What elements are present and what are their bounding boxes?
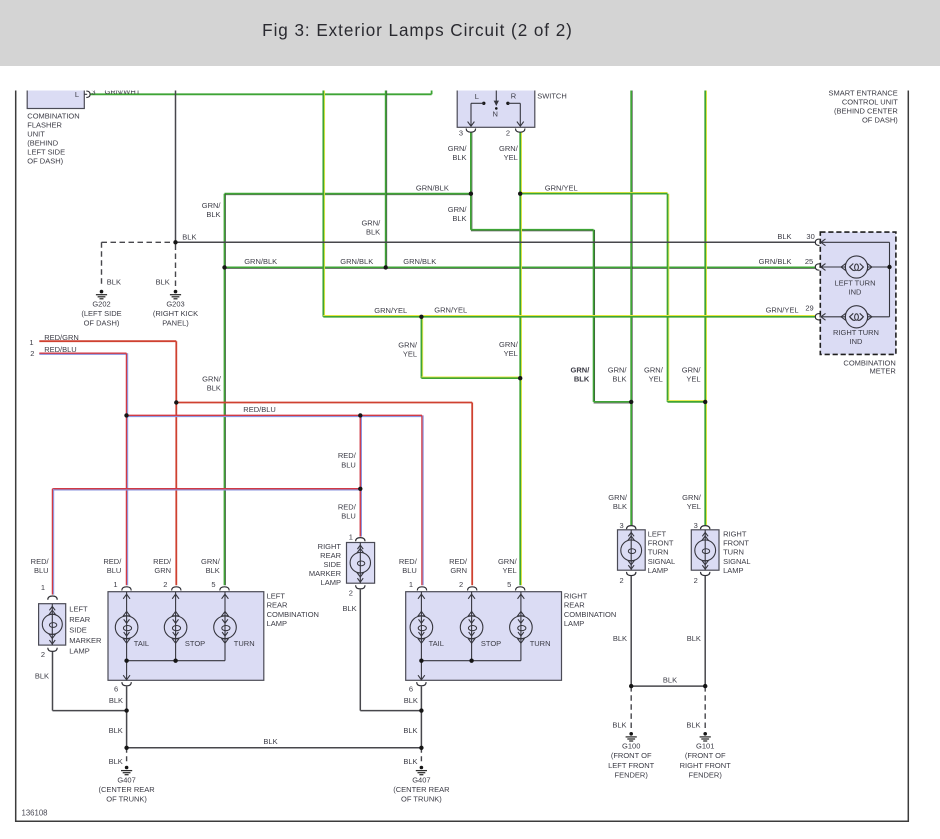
meter pin 29 connector: [766, 303, 820, 320]
svg-text:LEFT SIDE: LEFT SIDE: [27, 148, 65, 157]
wire BLK horizontal y747 linking both rear lamp grounds: [127, 747, 422, 749]
svg-text:LAMP: LAMP: [267, 619, 287, 628]
svg-text:(FRONT OF: (FRONT OF: [611, 751, 652, 760]
svg-text:(CENTER REAR: (CENTER REAR: [98, 785, 155, 794]
svg-text:SMART ENTRANCE: SMART ENTRANCE: [828, 88, 897, 97]
wire GRN/WHT from flasher L output to top edge: [90, 89, 431, 94]
svg-text:GRN/: GRN/: [499, 340, 519, 349]
smart entrance control unit caption: [828, 88, 898, 124]
junction at 360.3,415.4: [358, 413, 362, 417]
labels GRN/YEL on y317: [374, 306, 467, 316]
wire BLK long horizontal y242 to combination meter pin 30: [176, 241, 816, 243]
meter internal wiring: [819, 239, 889, 320]
svg-text:BLK: BLK: [263, 737, 277, 746]
wire BLK dashed to ground G101: [704, 686, 706, 730]
pin 1 RED/GRN entry: [29, 333, 78, 347]
svg-text:2: 2: [459, 580, 463, 589]
svg-text:BLK: BLK: [452, 153, 466, 162]
svg-text:G101: G101: [696, 742, 714, 751]
svg-text:REAR: REAR: [564, 601, 585, 610]
ground G100: [608, 732, 655, 779]
svg-text:REAR: REAR: [267, 601, 288, 610]
svg-text:BLK: BLK: [109, 696, 123, 705]
label GRN/YEL x705: [682, 365, 702, 383]
svg-text:BLK: BLK: [156, 277, 170, 286]
svg-text:YEL: YEL: [503, 566, 517, 575]
svg-text:BLK: BLK: [206, 210, 220, 219]
svg-text:RED/: RED/: [31, 557, 50, 566]
ground G101: [680, 732, 732, 779]
wire RED/BLU horizontal y489 to left rear side marker lamp pin 1: [53, 489, 361, 595]
svg-text:YEL: YEL: [403, 350, 417, 359]
turn signal switch box (top clipped): [457, 80, 535, 127]
wire RED/BLU horizontal y415 to right rear combination lamp pin 1: [127, 415, 424, 585]
svg-text:BLK: BLK: [182, 232, 196, 241]
left turn indicator bulb: [835, 256, 876, 297]
svg-text:GRN/: GRN/: [644, 365, 664, 374]
wire RED/BLU vertical to left rear combination lamp pin 1: [127, 353, 128, 585]
svg-text:TAIL: TAIL: [429, 639, 444, 648]
wire GRN/BLK long horizontal y267 to combination meter pin 25: [225, 267, 816, 268]
svg-text:6: 6: [409, 684, 413, 693]
svg-text:RED/BLU: RED/BLU: [44, 345, 77, 354]
pin 1 connector: [122, 587, 131, 591]
pin 2 connector: [172, 587, 181, 591]
svg-text:STOP: STOP: [185, 639, 205, 648]
svg-text:GRN/: GRN/: [682, 493, 702, 502]
wire RED/BLU stub pin 2 entering at left: [39, 353, 126, 354]
wire GRN/BLK vertical x385 from top edge to junction on y267: [386, 89, 387, 267]
svg-text:TURN: TURN: [648, 548, 669, 557]
svg-text:2: 2: [506, 129, 510, 138]
svg-text:FRONT: FRONT: [648, 539, 674, 548]
svg-text:1: 1: [41, 583, 45, 592]
wire BLK dashed to ground G203: [175, 245, 177, 287]
wire BLK dashed to ground G407 right: [420, 748, 422, 764]
svg-text:1: 1: [113, 580, 117, 589]
svg-text:BLK: BLK: [686, 721, 700, 730]
svg-text:IND: IND: [850, 337, 864, 346]
svg-text:GRN/BLK: GRN/BLK: [403, 257, 436, 266]
svg-text:2: 2: [41, 650, 45, 659]
svg-text:G202: G202: [92, 299, 110, 308]
svg-text:YEL: YEL: [504, 349, 518, 358]
label GRN/BLK switch pin3 wire: [448, 144, 468, 162]
wire BLK from left rear side marker lamp pin 2: [53, 652, 127, 711]
svg-text:BLK: BLK: [452, 214, 466, 223]
svg-text:BLK: BLK: [207, 383, 221, 392]
svg-text:OF TRUNK): OF TRUNK): [401, 795, 442, 804]
svg-text:RIGHT FRONT: RIGHT FRONT: [680, 761, 732, 770]
svg-text:SWITCH: SWITCH: [537, 91, 567, 100]
svg-text:L: L: [75, 90, 79, 99]
svg-text:TAIL: TAIL: [134, 639, 149, 648]
svg-text:LAMP: LAMP: [564, 619, 584, 628]
svg-text:5: 5: [507, 580, 511, 589]
ground G202: [81, 290, 121, 328]
junction at 705.2,401.9: [703, 400, 707, 404]
svg-text:LAMP: LAMP: [69, 646, 89, 655]
wire BLK vertical x175 from top edge to junction y242: [175, 89, 177, 242]
svg-text:SIDE: SIDE: [323, 560, 341, 569]
svg-text:(BEHIND: (BEHIND: [27, 139, 58, 148]
svg-text:REAR: REAR: [320, 551, 341, 560]
svg-text:(CENTER REAR: (CENTER REAR: [393, 785, 450, 794]
svg-text:SIDE: SIDE: [69, 626, 87, 635]
junction inside meter: [887, 265, 891, 269]
svg-text:BLU: BLU: [402, 566, 417, 575]
flasher output connector: [86, 91, 90, 97]
svg-text:136108: 136108: [22, 809, 48, 818]
svg-text:GRN/YEL: GRN/YEL: [545, 183, 578, 192]
svg-text:CONTROL UNIT: CONTROL UNIT: [842, 98, 898, 107]
svg-text:6: 6: [114, 684, 118, 693]
svg-text:G407: G407: [412, 775, 430, 784]
label GRN/YEL x421: [398, 341, 418, 359]
svg-text:RED/BLU: RED/BLU: [243, 405, 276, 414]
left rear combination lamp: [108, 580, 319, 693]
junction at 705.2,686.1: [703, 684, 707, 688]
wire GRN/BLK from switch pin 3 down to junction and turn at y230: [471, 132, 472, 230]
svg-text:FRONT: FRONT: [723, 539, 749, 548]
svg-text:2: 2: [163, 580, 167, 589]
wire BLK dashed to ground G202: [102, 242, 176, 286]
combination flasher unit box (top clipped): [27, 80, 87, 109]
svg-text:LAMP: LAMP: [723, 566, 743, 575]
svg-text:YEL: YEL: [686, 374, 700, 383]
svg-text:L: L: [475, 92, 479, 101]
svg-text:25: 25: [805, 257, 813, 266]
left combo lamp pin wire labels: [103, 557, 220, 575]
pin 5 connector: [220, 587, 229, 591]
svg-text:RIGHT TURN: RIGHT TURN: [833, 328, 879, 337]
wire RED/GRN branch y402 to right rear combination lamp pin 2: [176, 403, 472, 586]
svg-text:BLU: BLU: [34, 566, 49, 575]
svg-text:GRN/YEL: GRN/YEL: [766, 306, 799, 315]
junction at 360.3,488.8: [358, 487, 362, 491]
svg-text:BLK: BLK: [109, 757, 123, 766]
svg-text:LAMP: LAMP: [648, 566, 668, 575]
wire BLK from right rear combination lamp pin 6 to junction y747: [420, 686, 422, 747]
svg-text:OF DASH): OF DASH): [862, 116, 898, 125]
svg-text:LEFT: LEFT: [267, 591, 286, 600]
svg-text:MARKER: MARKER: [69, 636, 102, 645]
svg-text:COMBINATION: COMBINATION: [27, 112, 79, 121]
svg-text:Fig 3: Exterior Lamps Circuit: Fig 3: Exterior Lamps Circuit (2 of 2): [262, 21, 573, 40]
ground G407 left: [98, 766, 155, 804]
wire BLK dashed to ground G407 left: [126, 748, 128, 764]
svg-text:COMBINATION: COMBINATION: [564, 610, 616, 619]
junction at 520.2,378.2: [518, 376, 522, 380]
svg-text:GRN/YEL: GRN/YEL: [374, 306, 407, 315]
svg-text:R: R: [511, 92, 517, 101]
svg-text:GRN: GRN: [450, 566, 467, 575]
svg-text:MARKER: MARKER: [309, 569, 342, 578]
svg-text:COMBINATION: COMBINATION: [267, 610, 319, 619]
svg-text:GRN: GRN: [154, 566, 171, 575]
svg-text:2: 2: [349, 589, 353, 598]
svg-text:GRN/: GRN/: [201, 557, 221, 566]
svg-text:2: 2: [620, 576, 624, 585]
ground G407 right: [393, 766, 450, 804]
wire RED/BLU branch x360 down to right rear side marker lamp pin 1: [360, 415, 361, 536]
label GRN/BLK x593 (bold): [571, 365, 591, 383]
pin 6 connector: [122, 682, 131, 686]
svg-text:YEL: YEL: [687, 502, 701, 511]
svg-text:BLK: BLK: [612, 374, 626, 383]
svg-text:GRN/BLK: GRN/BLK: [244, 257, 277, 266]
junction at 126.5,415.4: [124, 413, 128, 417]
svg-text:1: 1: [29, 338, 33, 347]
svg-text:G203: G203: [166, 299, 184, 308]
svg-text:RIGHT: RIGHT: [723, 529, 747, 538]
junction at 176.3,402.5: [174, 400, 178, 404]
svg-text:FENDER): FENDER): [615, 770, 649, 779]
wire GRN/YEL horizontal y193 from switch pin2 junction to x667: [520, 192, 705, 401]
wire GRN/BLK vertical x224 down to left rear combination lamp pin 5: [225, 194, 226, 586]
label GRN/BLK x470 lower: [448, 205, 468, 223]
junction at 385.7,267.4: [384, 265, 388, 269]
label GRN/YEL right front lamp wire: [682, 493, 702, 511]
svg-text:BLK: BLK: [206, 566, 220, 575]
svg-text:GRN/: GRN/: [608, 365, 628, 374]
svg-text:RED/: RED/: [103, 557, 122, 566]
pin 6 connector: [417, 682, 426, 686]
title header bar: [0, 0, 940, 66]
ground G203: [153, 290, 198, 328]
label GRN/YEL switch pin2 wire: [499, 144, 519, 162]
left front turn signal lamp: [618, 521, 676, 585]
switch pin 3: [459, 129, 476, 138]
svg-text:TURN: TURN: [723, 548, 744, 557]
svg-text:SIGNAL: SIGNAL: [723, 557, 751, 566]
wire GRN/YEL vertical x705 from top edge to right front turn signal lamp pin 3: [705, 89, 706, 525]
wire BLK horizontal y686 linking front turn signal grounds: [631, 685, 705, 687]
svg-text:BLU: BLU: [341, 460, 356, 469]
right rear combination lamp: [406, 580, 617, 693]
wire RED/GRN vertical to left rear combination lamp pin 2: [175, 341, 177, 585]
svg-text:YEL: YEL: [504, 153, 518, 162]
wire BLK from right front turn signal lamp pin 2: [704, 576, 706, 686]
label GRN/BLK x224 lower: [202, 374, 222, 392]
junction at 126.6,747.8: [124, 746, 128, 750]
svg-text:N: N: [492, 110, 497, 119]
svg-text:3: 3: [694, 521, 698, 530]
svg-text:BLK: BLK: [109, 726, 123, 735]
svg-text:FENDER): FENDER): [689, 770, 723, 779]
svg-text:OF DASH): OF DASH): [84, 319, 120, 328]
switch internal contacts L N R: [468, 80, 524, 126]
svg-text:GRN/: GRN/: [448, 205, 468, 214]
wire GRN/YEL from switch pin 2 down to right rear combination lamp pin 5: [520, 132, 521, 585]
flasher unit caption: [27, 112, 79, 166]
wire GRN/BLK branch y230 from switch pin3 wire to x593: [471, 230, 631, 403]
svg-text:2: 2: [30, 349, 34, 358]
svg-text:GRN/: GRN/: [499, 144, 519, 153]
svg-text:RIGHT: RIGHT: [564, 591, 588, 600]
svg-text:3: 3: [459, 129, 463, 138]
right rear side marker caption: [309, 542, 342, 587]
svg-text:GRN/: GRN/: [202, 201, 222, 210]
wire GRN/YEL vertical x323 from top edge turning right on y317: [323, 89, 324, 317]
svg-text:29: 29: [805, 303, 813, 312]
svg-text:GRN/: GRN/: [608, 493, 628, 502]
svg-text:BLU: BLU: [341, 512, 356, 521]
right combo lamp pin wire labels: [399, 557, 518, 575]
right turn indicator bulb: [833, 306, 879, 346]
labels GRN/BLK on y267: [244, 257, 436, 266]
svg-text:GRN/: GRN/: [448, 144, 468, 153]
svg-text:METER: METER: [870, 366, 897, 375]
svg-text:GRN/WHT: GRN/WHT: [105, 87, 141, 96]
svg-text:GRN/: GRN/: [571, 365, 591, 374]
svg-text:YEL: YEL: [649, 374, 663, 383]
svg-text:BLK: BLK: [343, 604, 357, 613]
svg-text:G407: G407: [117, 775, 135, 784]
svg-text:BLK: BLK: [663, 676, 677, 685]
svg-text:TURN: TURN: [234, 639, 255, 648]
svg-text:LEFT: LEFT: [648, 529, 667, 538]
svg-text:GRN/: GRN/: [682, 365, 702, 374]
svg-text:RED/: RED/: [338, 451, 357, 460]
svg-text:(FRONT OF: (FRONT OF: [685, 751, 726, 760]
label GRN/YEL x520: [499, 340, 519, 358]
svg-text:RED/: RED/: [338, 503, 357, 512]
svg-text:GRN/: GRN/: [202, 374, 222, 383]
svg-text:GRN/BLK: GRN/BLK: [416, 183, 449, 192]
svg-text:3: 3: [91, 87, 95, 96]
svg-text:GRN/BLK: GRN/BLK: [759, 257, 792, 266]
svg-text:BLK: BLK: [777, 232, 791, 241]
svg-text:SIGNAL: SIGNAL: [648, 557, 676, 566]
wire BLK from left front turn signal lamp pin 2: [630, 576, 632, 686]
svg-text:UNIT: UNIT: [27, 130, 45, 139]
svg-text:(BEHIND CENTER: (BEHIND CENTER: [834, 107, 898, 116]
label GRN/BLK x631: [608, 365, 628, 383]
switch pin 2: [506, 129, 525, 138]
left rear side marker lamp: [39, 583, 66, 659]
svg-text:TURN: TURN: [530, 639, 551, 648]
junction at 631.2,401.9: [629, 400, 633, 404]
svg-text:RED/: RED/: [399, 557, 418, 566]
svg-text:BLU: BLU: [107, 566, 122, 575]
svg-text:LEFT TURN: LEFT TURN: [835, 278, 876, 287]
svg-text:BLK: BLK: [687, 634, 701, 643]
svg-text:1: 1: [349, 532, 353, 541]
junction at 126.6,710.6: [124, 708, 128, 712]
junction at 421.4,316.8: [419, 315, 423, 319]
label RED/BLU x360 lower: [338, 503, 357, 521]
junction at 470.9,193.7: [469, 192, 473, 196]
svg-text:GRN/: GRN/: [498, 557, 518, 566]
wire GRN/BLK horizontal y193 from x224 to switch pin3 junction: [225, 194, 471, 195]
svg-text:LEFT: LEFT: [69, 605, 88, 614]
svg-text:GRN/BLK: GRN/BLK: [340, 257, 373, 266]
pin 1 connector: [417, 587, 426, 591]
pin 2 RED/BLU entry: [30, 345, 77, 358]
svg-text:BLK: BLK: [403, 757, 417, 766]
wire GRN/BLK vertical x631 from top edge to left front turn signal lamp pin 3: [631, 89, 632, 525]
svg-text:BLK: BLK: [612, 721, 626, 730]
svg-text:BLK: BLK: [107, 277, 121, 286]
svg-text:OF TRUNK): OF TRUNK): [106, 795, 147, 804]
svg-text:LAMP: LAMP: [321, 578, 341, 587]
svg-text:GRN/: GRN/: [398, 341, 418, 350]
svg-text:FLASHER: FLASHER: [27, 121, 62, 130]
svg-text:BLK: BLK: [613, 634, 627, 643]
svg-text:BLK: BLK: [366, 227, 380, 236]
junction at 224.5,267.4: [222, 265, 226, 269]
junction at 631.2,686.1: [629, 684, 633, 688]
wire GRN/YEL link from y317 junction down and right to switch pin2 wire: [421, 317, 520, 378]
svg-text:BLK: BLK: [574, 374, 590, 383]
junction at 421.4,710.6: [419, 708, 423, 712]
right rear side marker lamp: [347, 532, 375, 597]
right front turn signal lamp: [691, 521, 750, 585]
pin digits 1 2 5: [113, 580, 215, 589]
svg-text:LEFT FRONT: LEFT FRONT: [608, 761, 655, 770]
svg-text:BLK: BLK: [35, 672, 49, 681]
svg-text:GRN/: GRN/: [361, 218, 381, 227]
wire BLK dashed to ground G100: [630, 686, 632, 730]
svg-text:RIGHT: RIGHT: [318, 542, 342, 551]
wire GRN/YEL long horizontal y317 to combination meter pin 29: [323, 316, 815, 317]
svg-text:5: 5: [211, 580, 215, 589]
svg-text:REAR: REAR: [69, 615, 90, 624]
combination meter caption: [843, 358, 896, 375]
svg-text:BLK: BLK: [403, 726, 417, 735]
label RED/BLU x52: [31, 557, 50, 575]
wire BLK from right rear side marker lamp pin 2: [360, 590, 421, 711]
svg-text:GRN/YEL: GRN/YEL: [434, 306, 467, 315]
svg-text:RED/GRN: RED/GRN: [44, 333, 79, 342]
label GRN/YEL x667: [644, 365, 664, 383]
junction at 520.2,193.7: [518, 192, 522, 196]
junction at 175.5,242.3: [173, 240, 177, 244]
svg-text:G100: G100: [622, 742, 640, 751]
svg-text:(LEFT SIDE: (LEFT SIDE: [81, 309, 121, 318]
svg-text:PANEL): PANEL): [162, 319, 189, 328]
svg-text:OF DASH): OF DASH): [27, 157, 63, 166]
svg-text:30: 30: [806, 232, 814, 241]
svg-text:STOP: STOP: [481, 639, 501, 648]
svg-text:RED/: RED/: [449, 557, 468, 566]
svg-text:2: 2: [694, 576, 698, 585]
svg-text:(RIGHT KICK: (RIGHT KICK: [153, 309, 198, 318]
label GRN/BLK x385: [361, 218, 381, 236]
left rear side marker caption: [69, 605, 102, 656]
svg-text:RED/: RED/: [153, 557, 172, 566]
svg-text:IND: IND: [849, 288, 863, 297]
svg-text:BLK: BLK: [613, 502, 627, 511]
pin digits 1 2 5: [409, 580, 511, 589]
combination meter dashed box: [820, 232, 896, 354]
svg-text:3: 3: [620, 521, 624, 530]
pin 2 connector: [468, 587, 477, 591]
meter pin 30 connector: [777, 232, 819, 245]
svg-text:1: 1: [409, 580, 413, 589]
label RED/BLU x360 upper: [338, 451, 357, 469]
pin 5 connector: [516, 587, 525, 591]
junction at 421.4,747.8: [419, 746, 423, 750]
meter pin 25 connector: [759, 257, 820, 270]
wire RED/GRN stub pin 1 entering at left: [39, 340, 176, 342]
wire BLK from left rear combination lamp pin 6 to junction y747: [126, 686, 128, 747]
label GRN/BLK x224 upper: [202, 201, 222, 219]
label GRN/BLK left front lamp wire: [608, 493, 628, 511]
svg-text:BLK: BLK: [404, 696, 418, 705]
